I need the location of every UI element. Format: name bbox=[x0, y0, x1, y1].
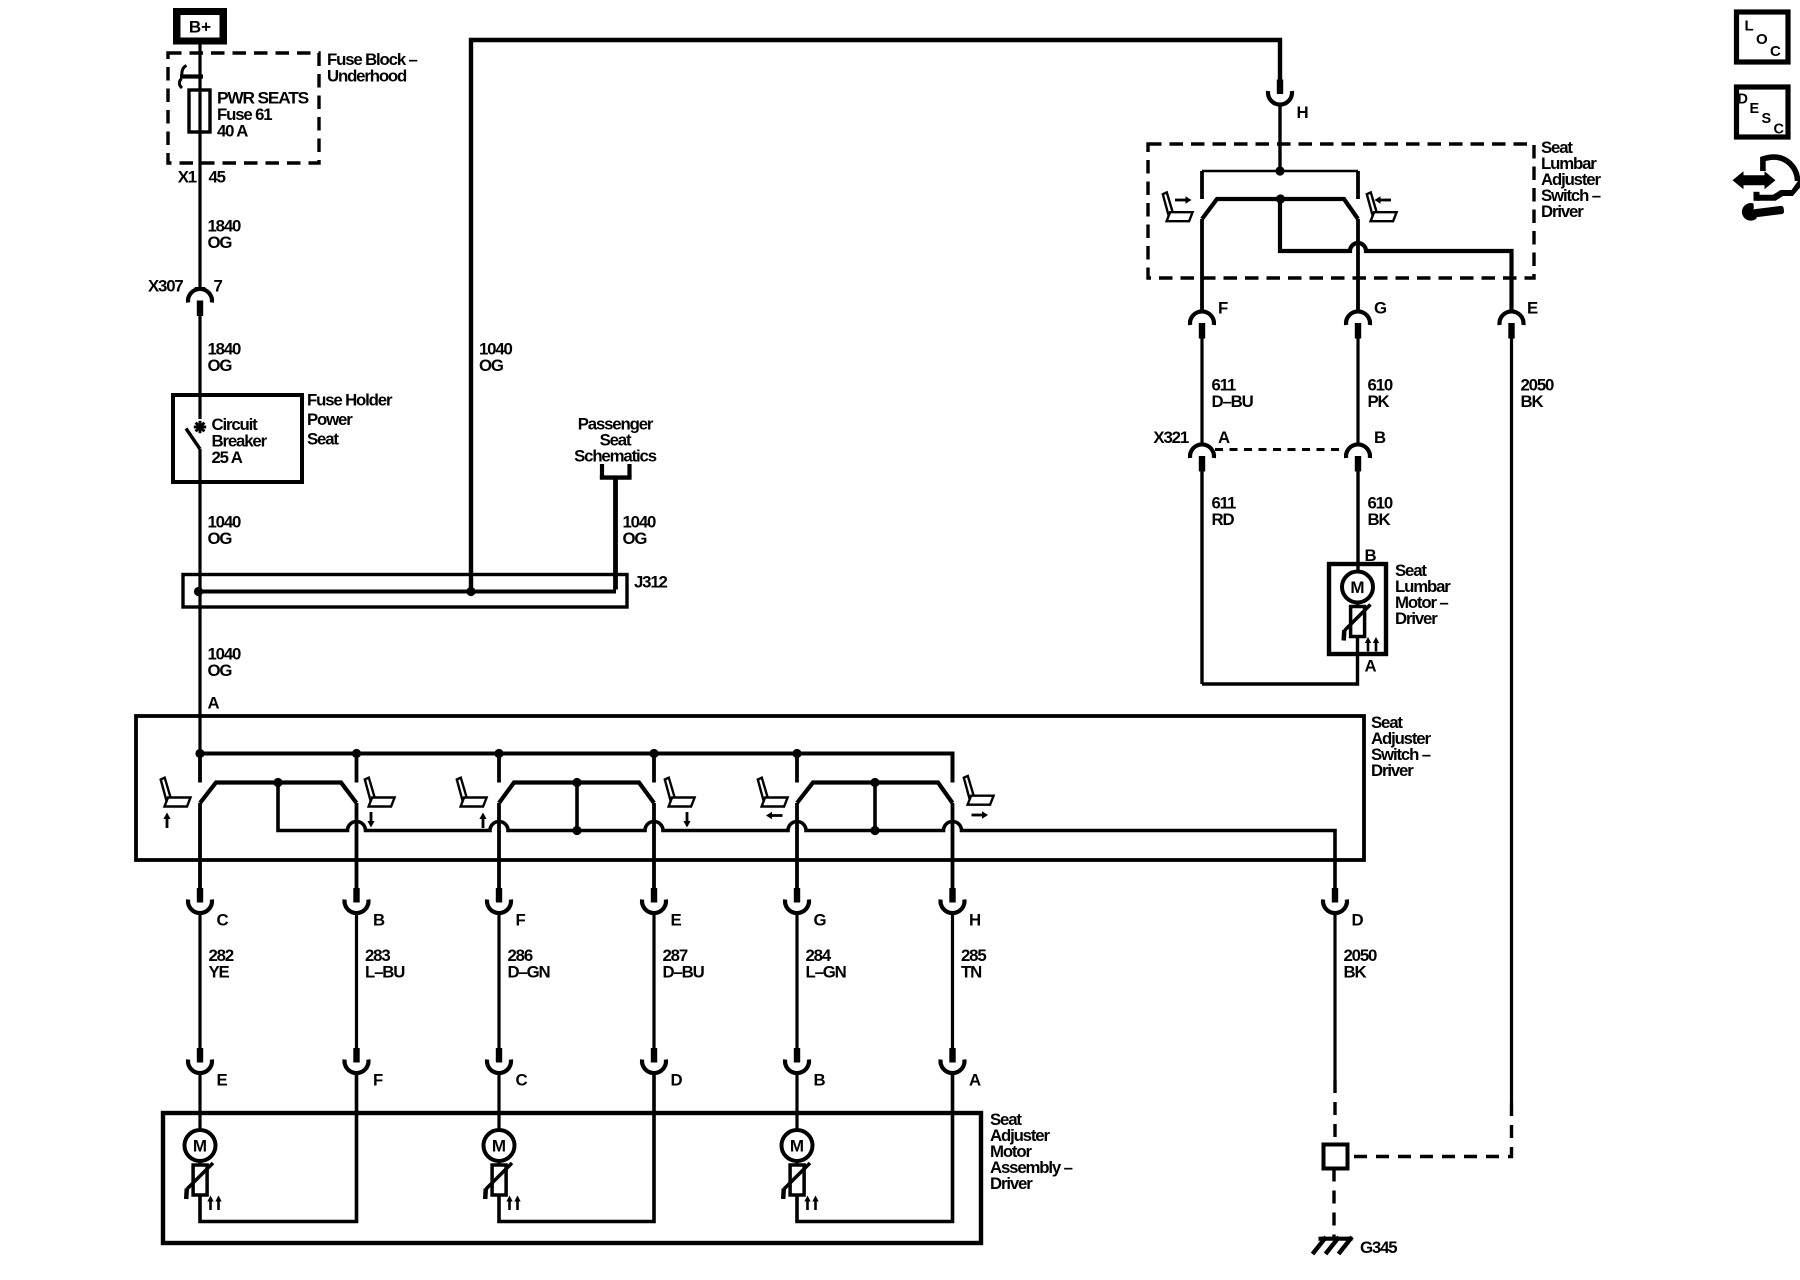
label Seat Lumbar Adjuster Switch - Driver bbox=[1541, 138, 1601, 221]
switch rocker blade group 3 (horizontal) bbox=[797, 778, 953, 803]
svg-text:H: H bbox=[969, 911, 980, 930]
svg-text:TN: TN bbox=[961, 963, 981, 982]
lumbar switch rocker blade bbox=[1202, 194, 1358, 219]
svg-text:A: A bbox=[1218, 428, 1230, 447]
svg-text:E: E bbox=[217, 1071, 228, 1090]
label J312 bbox=[634, 573, 668, 592]
svg-text:B: B bbox=[1374, 428, 1386, 447]
wire: motor 3 loop to A column bbox=[797, 1074, 953, 1222]
splice S-ground box bbox=[1324, 1145, 1348, 1169]
svg-text:C: C bbox=[1774, 122, 1785, 138]
connector F out bbox=[487, 888, 526, 930]
svg-text:D–GN: D–GN bbox=[508, 963, 550, 982]
svg-text:A: A bbox=[969, 1071, 981, 1090]
connector H out bbox=[941, 888, 981, 930]
svg-text:OG: OG bbox=[208, 661, 233, 680]
wire 283 L-BU bbox=[357, 914, 406, 1049]
pin labels X1 45 bbox=[178, 168, 226, 187]
wire 611 D-BU F to X321-A bbox=[1202, 338, 1254, 445]
motor: horizontal drive bbox=[782, 1130, 819, 1210]
svg-text:F: F bbox=[1218, 299, 1228, 318]
svg-text:Driver: Driver bbox=[1395, 609, 1438, 628]
svg-text:A: A bbox=[1365, 657, 1377, 676]
connector D out bbox=[1323, 888, 1364, 930]
wire: dashed link 2050 BK from E wire to splice bbox=[1348, 1103, 1512, 1157]
svg-text:E: E bbox=[1750, 101, 1760, 117]
svg-text:OG: OG bbox=[208, 233, 233, 252]
svg-text:RD: RD bbox=[1212, 510, 1235, 529]
seat icon 5 (rearward) bbox=[758, 778, 788, 820]
fuse block underhood dashed outline bbox=[168, 53, 319, 163]
lumbar switch fixed contact rail bbox=[1202, 171, 1358, 199]
svg-text:L: L bbox=[1745, 18, 1754, 35]
svg-text:Driver: Driver bbox=[990, 1174, 1033, 1193]
connector E out bbox=[642, 888, 682, 930]
seat icon lumbar left bbox=[1163, 192, 1193, 221]
wire: motor 1 loop to F column bbox=[200, 1074, 357, 1222]
svg-text:A: A bbox=[208, 694, 220, 713]
connector G out bbox=[785, 888, 827, 930]
wire 611 RD X321-A to motor A bbox=[1202, 471, 1236, 684]
svg-text:E: E bbox=[1527, 299, 1538, 318]
ground G345 bbox=[1313, 1237, 1398, 1257]
wire: X307 to circuit breaker bbox=[198, 316, 201, 420]
seat lumbar motor box bbox=[1329, 564, 1386, 654]
wire: C into motor 2 bbox=[497, 1074, 500, 1131]
junction node bus at B column bbox=[352, 749, 361, 758]
connector D motor bbox=[642, 1048, 683, 1090]
wire 1840 OG label (X307 to breaker) bbox=[208, 340, 242, 376]
svg-text:Fuse Holder: Fuse Holder bbox=[307, 391, 393, 410]
pin label B at lumbar motor bbox=[1365, 546, 1377, 565]
seat icon 1 (seat up) bbox=[161, 778, 191, 828]
svg-text:40 A: 40 A bbox=[217, 122, 248, 141]
svg-text:Underhood: Underhood bbox=[327, 67, 407, 86]
svg-text:OG: OG bbox=[208, 356, 233, 375]
svg-text:25 A: 25 A bbox=[212, 448, 243, 467]
connector C out bbox=[188, 888, 229, 930]
switch rocker blade group 2 (front height) bbox=[499, 778, 654, 803]
wire: dashed ground drop from D wire bbox=[1333, 1080, 1336, 1145]
wire 1040 OG label (breaker to J312) bbox=[208, 513, 242, 549]
wire 2050 BK from D bbox=[1335, 914, 1377, 1081]
junction node bus at G column bbox=[792, 749, 801, 758]
svg-text:B: B bbox=[373, 911, 385, 930]
wire: B+ feed down left column x=200 bbox=[198, 44, 201, 288]
svg-text:Seat: Seat bbox=[307, 430, 339, 449]
svg-text:J312: J312 bbox=[634, 573, 668, 592]
wire: J312 down to seat adjuster switch bbox=[198, 592, 201, 754]
seat icon 4 (front down) bbox=[665, 778, 695, 828]
svg-text:D: D bbox=[1738, 92, 1748, 108]
seat icon 3 (front up) bbox=[457, 778, 487, 828]
connector X307 pin 7 bbox=[148, 277, 223, 317]
connector E motor bbox=[188, 1048, 228, 1090]
label PWR SEATS Fuse 61 40 A bbox=[217, 89, 309, 141]
label Fuse Block - Underhood bbox=[327, 50, 418, 86]
pin label A at switch feed bbox=[208, 694, 220, 713]
wire 1040 OG label (passenger feed) bbox=[623, 513, 657, 549]
seat adjuster motor assembly box bbox=[163, 1113, 981, 1243]
switch common return line with hops to D bbox=[278, 783, 1335, 889]
battery positive symbol B+ bbox=[173, 8, 227, 45]
svg-text:H: H bbox=[1297, 103, 1308, 122]
seat adjuster switch box bbox=[136, 716, 1364, 860]
wire: top power feed 1040 OG (vertical x=471 + horizontal y=40 + down to H) bbox=[471, 40, 1280, 592]
motor: front height bbox=[185, 1130, 222, 1210]
svg-text:OG: OG bbox=[623, 529, 648, 548]
wire: blade 3 left terminal down to G bbox=[795, 803, 799, 888]
wire 285 TN bbox=[953, 914, 987, 1049]
connector X321 cavity B bbox=[1346, 428, 1386, 472]
svg-text:G: G bbox=[1374, 299, 1387, 318]
fixed contact stubs from bus bbox=[200, 754, 797, 783]
wire: motor 2 loop to D column bbox=[499, 1074, 654, 1222]
wire 286 D-GN bbox=[499, 914, 550, 1049]
wire: B into motor 3 bbox=[795, 1074, 798, 1131]
connector F in-line bbox=[1190, 299, 1228, 339]
fuse clip symbol bbox=[179, 66, 203, 89]
splice pack J312 box bbox=[183, 575, 627, 608]
splice bus bar inside J312 bbox=[199, 590, 617, 594]
svg-text:45: 45 bbox=[209, 168, 226, 187]
wire: lumbar motor A return loop bbox=[1202, 637, 1358, 685]
label Seat Adjuster Motor Assembly - Driver bbox=[990, 1110, 1073, 1193]
svg-text:O: O bbox=[1756, 31, 1768, 48]
motor M1 seat lumbar bbox=[1342, 572, 1379, 652]
wire: blade 3 right terminal down to H bbox=[951, 803, 955, 888]
svg-text:B: B bbox=[814, 1071, 826, 1090]
svg-text:Schematics: Schematics bbox=[574, 447, 657, 466]
seat icon 6 (forward) bbox=[964, 776, 994, 819]
seat icon lumbar right bbox=[1367, 192, 1397, 221]
wire 1840 OG label (fuse block to X307) bbox=[208, 217, 242, 253]
connector F motor bbox=[345, 1048, 384, 1090]
connector H in-line bbox=[1268, 80, 1308, 123]
svg-text:L–GN: L–GN bbox=[806, 963, 846, 982]
connector X321 cavity A bbox=[1153, 428, 1230, 472]
svg-text:S: S bbox=[1762, 111, 1772, 127]
svg-text:G345: G345 bbox=[1360, 1238, 1397, 1257]
junction node bus at C column bbox=[195, 749, 204, 758]
label Seat Adjuster Switch - Driver bbox=[1371, 713, 1431, 780]
connector C motor bbox=[487, 1048, 528, 1090]
wire: lumbar blade left down to F bbox=[1200, 219, 1204, 312]
svg-text:OG: OG bbox=[479, 356, 504, 375]
svg-text:C: C bbox=[217, 911, 229, 930]
wire 284 L-GN bbox=[797, 914, 846, 1049]
svg-text:G: G bbox=[814, 911, 827, 930]
svg-text:B+: B+ bbox=[189, 18, 211, 37]
connector B out bbox=[345, 888, 386, 930]
svg-text:F: F bbox=[373, 1071, 383, 1090]
navigation arrows and wrench icon bbox=[1733, 157, 1800, 221]
wire: blade 2 left terminal down to F bbox=[497, 803, 501, 888]
svg-text:E: E bbox=[671, 911, 682, 930]
svg-text:BK: BK bbox=[1521, 392, 1544, 411]
junction node at J312 center bbox=[466, 587, 475, 596]
wire 2050 BK from E down right side bbox=[1512, 338, 1555, 1103]
label Fuse Holder Power Seat bbox=[307, 391, 393, 449]
switch rocker blade group 1 (vertical) bbox=[200, 778, 357, 803]
svg-text:Power: Power bbox=[307, 410, 353, 429]
junction node bus at F column bbox=[494, 749, 503, 758]
seat lumbar adjuster switch dashed outline bbox=[1148, 144, 1534, 278]
svg-text:F: F bbox=[516, 911, 526, 930]
svg-text:D–BU: D–BU bbox=[1212, 392, 1254, 411]
svg-text:YE: YE bbox=[209, 963, 230, 982]
wire: blade 1 right terminal down to B bbox=[355, 803, 359, 888]
svg-text:X307: X307 bbox=[148, 277, 183, 296]
blade tap group 3 bbox=[870, 783, 879, 836]
svg-text:BK: BK bbox=[1344, 963, 1367, 982]
svg-text:D: D bbox=[671, 1071, 683, 1090]
svg-text:7: 7 bbox=[214, 277, 223, 296]
label Circuit Breaker 25 A bbox=[212, 415, 268, 467]
junction node bus at E column bbox=[649, 749, 658, 758]
lumbar switch common tap to E bbox=[1280, 199, 1512, 312]
svg-text:L–BU: L–BU bbox=[365, 963, 405, 982]
wire 287 D-BU bbox=[654, 914, 705, 1049]
wire 1040 OG label (J312 to switch) bbox=[208, 645, 242, 681]
svg-text:C: C bbox=[1770, 43, 1781, 60]
connector E in-line bbox=[1500, 299, 1539, 339]
svg-text:D: D bbox=[1352, 911, 1364, 930]
connector G in-line bbox=[1346, 299, 1387, 339]
dashed connector body X321 bbox=[1215, 448, 1345, 451]
svg-text:PK: PK bbox=[1368, 392, 1390, 411]
switch supply bus rail bbox=[200, 754, 953, 783]
svg-text:Driver: Driver bbox=[1541, 202, 1584, 221]
wire: blade 2 right terminal down to E bbox=[652, 803, 656, 888]
svg-text:X1: X1 bbox=[178, 168, 197, 187]
off-page bracket for passenger seat schematics bbox=[600, 464, 632, 478]
label Passenger Seat Schematics bbox=[574, 415, 657, 466]
wire 610 PK G to X321-B bbox=[1358, 338, 1393, 445]
connector A motor bbox=[941, 1048, 982, 1090]
wire: lumbar blade right down to G bbox=[1356, 219, 1360, 312]
wire: blade 1 left terminal down to C bbox=[198, 803, 202, 888]
wire 282 YE bbox=[200, 914, 234, 1049]
seat icon 2 (seat down) bbox=[365, 778, 395, 828]
DESC reference icon bbox=[1737, 87, 1789, 138]
wire 610 BK X321-B to motor B bbox=[1358, 471, 1393, 572]
svg-text:OG: OG bbox=[208, 529, 233, 548]
wire: E into motor 1 bbox=[198, 1074, 201, 1131]
svg-text:X321: X321 bbox=[1153, 428, 1188, 447]
svg-text:Driver: Driver bbox=[1371, 761, 1414, 780]
svg-text:BK: BK bbox=[1368, 510, 1391, 529]
circuit breaker 25A box bbox=[173, 395, 302, 482]
connector B motor bbox=[785, 1048, 826, 1090]
motor: seat height bbox=[484, 1130, 521, 1210]
LOC reference icon bbox=[1737, 12, 1789, 62]
wire: H down into lumbar switch bbox=[1278, 104, 1281, 171]
blade tap group 2 bbox=[572, 783, 581, 836]
junction node lumbar feed bbox=[1275, 166, 1284, 175]
pin label A at lumbar motor bbox=[1365, 657, 1377, 676]
wire: passenger seat feed down to J312 bbox=[613, 480, 618, 590]
svg-text:D–BU: D–BU bbox=[663, 963, 705, 982]
label Seat Lumbar Motor - Driver bbox=[1395, 561, 1451, 628]
wire: dashed splice to ground bbox=[1332, 1169, 1335, 1239]
fuse PWR SEATS Fuse 61 40A (rectangle element) bbox=[189, 90, 210, 132]
svg-text:C: C bbox=[516, 1071, 528, 1090]
junction node at J312 left bbox=[194, 587, 203, 596]
wire: breaker to J312 splice pack bbox=[198, 449, 201, 592]
circuit breaker element (star contact + blade) bbox=[186, 421, 206, 449]
